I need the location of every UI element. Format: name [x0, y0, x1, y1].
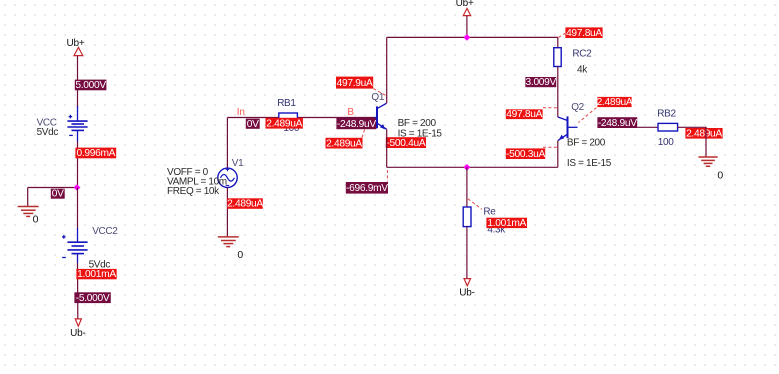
wire Ub+ stub to rail: [466, 16, 468, 38]
wire emitter rail: [387, 166, 558, 168]
node junction (top rail): [464, 34, 471, 41]
bias current label 2.489uA (RB1): [266, 118, 303, 130]
leader to 497.8uA (Q2 collector): [543, 107, 557, 109]
node junction (emitter rail): [464, 164, 471, 171]
label VCC: [37, 118, 57, 129]
svg-text:-696.9mV: -696.9mV: [346, 183, 388, 194]
svg-text:Ub+: Ub+: [67, 38, 85, 49]
svg-text:2.489uA: 2.489uA: [266, 118, 302, 129]
svg-text:2.489uA: 2.489uA: [326, 138, 362, 149]
svg-text:5Vdc: 5Vdc: [37, 127, 59, 138]
svg-text:0: 0: [33, 213, 39, 225]
ground 0 (right): [698, 157, 723, 181]
wire top rail: [387, 36, 558, 38]
svg-text:BF = 200: BF = 200: [398, 118, 437, 129]
svg-text:Q1: Q1: [371, 92, 384, 103]
node junction (0V node): [74, 184, 81, 191]
battery VCC2: [62, 228, 88, 263]
label IS = 1E-15 (Q1): [398, 129, 443, 140]
svg-text:0: 0: [237, 249, 243, 261]
source V1: [218, 168, 237, 188]
ground 0 (V1): [218, 237, 244, 261]
wire VCC2 to Ub- flag: [77, 263, 79, 319]
svg-text:-500.4uA: -500.4uA: [386, 138, 425, 149]
resistor RB1: [279, 113, 298, 122]
bias current label 1.001mA (Re): [486, 218, 527, 229]
label VOFF = 0: [167, 167, 209, 178]
label RB1: [277, 98, 296, 109]
ground 0 (left): [18, 207, 39, 226]
battery VCC: [67, 106, 87, 142]
svg-text:RC2: RC2: [572, 48, 592, 59]
wire Ub+ to VCC: [77, 56, 79, 107]
bias current label 2.489uA (Q2 base): [597, 97, 633, 108]
label 5Vdc: [37, 127, 59, 138]
svg-text:RB1: RB1: [277, 98, 296, 109]
svg-text:2.489uA: 2.489uA: [597, 97, 633, 108]
svg-text:Ub+: Ub+: [456, 0, 474, 9]
wire junction to Re: [466, 167, 468, 207]
bias voltage label -248.9uV (Q2 base): [597, 117, 637, 129]
svg-text:V1: V1: [232, 158, 244, 169]
label Re: [483, 206, 496, 217]
label RC2: [572, 48, 592, 59]
bias voltage label -5.000V: [74, 292, 110, 304]
svg-text:497.8uA: 497.8uA: [566, 28, 602, 39]
power flag Ub+ (top rail): [456, 0, 474, 16]
svg-text:Q2: Q2: [571, 102, 584, 113]
svg-text:-248.9uV: -248.9uV: [337, 119, 376, 130]
bias voltage label 0V: [246, 119, 260, 130]
svg-text:In: In: [237, 107, 245, 118]
leader to 2.489uA (Q1 base): [362, 130, 365, 138]
svg-text:IS = 1E-15: IS = 1E-15: [567, 158, 612, 169]
svg-text:2.489uA: 2.489uA: [686, 129, 722, 140]
svg-text:-5.000V: -5.000V: [76, 293, 110, 304]
resistor RB2: [658, 123, 678, 131]
bias current label 2.489uA (RB2): [685, 128, 722, 140]
svg-text:3.009V: 3.009V: [526, 77, 557, 88]
wire junction to ground (left): [28, 187, 78, 189]
svg-text:497.8uA: 497.8uA: [506, 109, 542, 120]
wire In node horizontal to RB1: [227, 117, 278, 119]
svg-text:0V: 0V: [52, 189, 64, 200]
wire VCC to junction: [77, 142, 79, 188]
bias current label -500.3uA: [506, 148, 546, 160]
label IS = 1E-15 (Q2): [567, 158, 612, 169]
leader to -696.9mV: [386, 170, 388, 182]
wire Q1 emitter down (over label): [386, 129, 388, 167]
bias current label 497.8uA (RC2): [565, 27, 602, 39]
bias voltage label -696.9mV: [346, 182, 388, 194]
svg-text:-500.3uA: -500.3uA: [506, 149, 545, 160]
power flag Ub+ (left rail): [67, 38, 85, 56]
svg-text:-248.9uV: -248.9uV: [598, 118, 637, 129]
transistor Q2: [558, 116, 578, 140]
label BF = 200 (Q1): [398, 118, 437, 129]
wire RB2 to ground corner: [678, 126, 707, 128]
value 4k (RC2): [577, 64, 588, 75]
label 5Vdc (VCC2): [89, 260, 111, 271]
bias voltage label 5.000V: [75, 80, 107, 91]
wire RC2 to Q2 collector: [557, 67, 559, 118]
svg-text:0: 0: [717, 169, 723, 181]
label V1: [232, 158, 244, 169]
resistor RC2: [554, 48, 561, 67]
svg-text:Re: Re: [483, 206, 496, 217]
svg-text:Ub-: Ub-: [70, 328, 86, 339]
svg-text:Ub-: Ub-: [459, 288, 475, 299]
value 100 (RB2): [658, 137, 674, 148]
svg-text:VCC2: VCC2: [92, 226, 118, 237]
svg-text:100: 100: [658, 137, 674, 148]
net label B: [347, 107, 354, 118]
net label In: [237, 107, 245, 118]
value 100 (RB1): [283, 123, 299, 134]
leader to 2.489uA (Q2 base): [578, 108, 596, 123]
bias current label 497.9uA: [336, 77, 373, 89]
svg-text:FREQ = 10k: FREQ = 10k: [167, 186, 220, 197]
bias voltage label -248.9uV (node B): [336, 118, 376, 130]
wire Re to Ub- flag: [466, 227, 468, 279]
bias current label -500.4uA: [386, 137, 426, 149]
wire V1 bottom to ground: [226, 188, 228, 237]
power flag Ub- (left rail): [70, 319, 86, 339]
power flag Ub- (Re): [459, 279, 475, 299]
bias current label 1.001mA: [76, 269, 116, 280]
wire junction to VCC2: [77, 188, 79, 230]
svg-text:0.996mA: 0.996mA: [76, 148, 115, 159]
bias current label 497.8uA (Q2 collector): [506, 109, 543, 120]
svg-text:0V: 0V: [247, 119, 259, 130]
svg-text:1.001mA: 1.001mA: [487, 218, 526, 229]
svg-text:497.9uA: 497.9uA: [337, 78, 373, 89]
wire V1 top vertical: [226, 118, 228, 169]
wire RB2 down to ground (over label): [705, 127, 707, 156]
transistor Q1: [375, 103, 387, 129]
svg-text:1.001mA: 1.001mA: [77, 269, 116, 280]
bias current label 2.489uA (V1): [227, 198, 263, 209]
leader to -500.3uA (Q2 emitter): [543, 146, 557, 148]
label RB2: [657, 108, 676, 119]
bias current label 2.489uA (Q1 base): [326, 138, 363, 150]
value 4.3k (Re): [487, 224, 506, 235]
wire RC2 top stub: [557, 37, 559, 47]
label Q2: [571, 102, 584, 113]
svg-text:BF = 200: BF = 200: [567, 137, 606, 148]
label Q1: [371, 92, 384, 103]
label VCC2: [92, 226, 118, 237]
leader to Re label: [468, 199, 482, 210]
svg-text:5.000V: 5.000V: [75, 80, 106, 91]
svg-text:2.489uA: 2.489uA: [227, 199, 263, 210]
wire Q2 base to RB2: [637, 126, 658, 128]
svg-text:RB2: RB2: [657, 108, 676, 119]
bias voltage label 0V: [51, 189, 65, 200]
label FREQ = 10k: [167, 186, 220, 197]
svg-text:B: B: [347, 107, 354, 118]
wire ground stub: [27, 188, 29, 207]
bias voltage label 3.009V: [525, 77, 556, 88]
label BF = 200 (Q2): [567, 137, 606, 148]
resistor Re: [463, 207, 471, 227]
wire RB1 to Q1 base: [298, 117, 375, 119]
leader to 497.9uA: [373, 89, 387, 97]
leader to 497.8uA (RC2 top): [559, 33, 566, 37]
wire Q2 emitter down: [557, 141, 559, 168]
label VAMPL = 10m: [167, 176, 227, 187]
wire Q1 collector: [386, 37, 388, 103]
svg-text:4k: 4k: [577, 64, 588, 75]
bias current label 0.996mA: [75, 148, 116, 159]
